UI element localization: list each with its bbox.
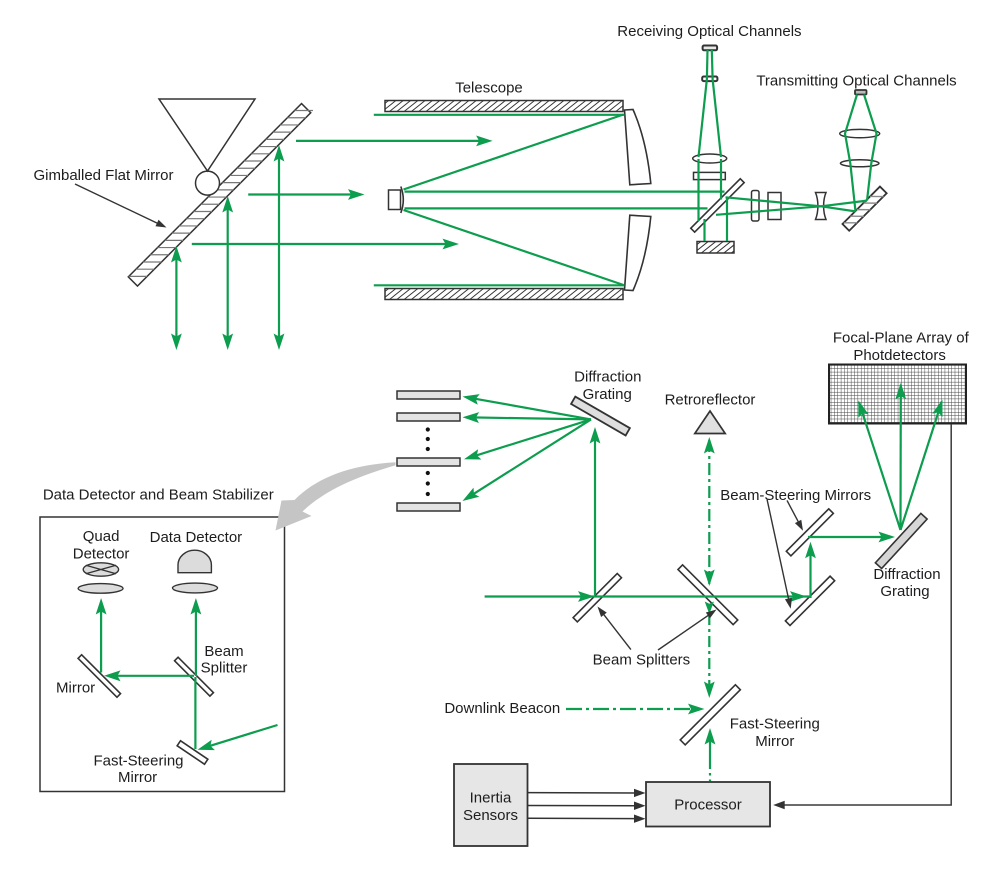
svg-text:Mirror: Mirror [118, 769, 157, 786]
beam: reflected vertical arrow 3 [278, 149, 280, 346]
ellipsis dots between plates 3 and 4 [426, 471, 430, 475]
fast-steering mirror (box, diagonal plate) [177, 741, 208, 764]
calibration hatched block [697, 242, 734, 254]
svg-text:Downlink Beacon: Downlink Beacon [444, 700, 560, 717]
svg-text:Data Detector: Data Detector [150, 529, 243, 546]
svg-text:Data Detector and Beam Stabili: Data Detector and Beam Stabilizer [43, 487, 274, 504]
retroreflector prism (triangle) [695, 411, 725, 434]
lower beam-steering mirror [785, 576, 834, 625]
beam: vertical to quad detector [100, 602, 102, 673]
telescope bottom wall (hatched) [385, 289, 623, 300]
beam: box fast-steering mirror to beam splitter vertical [194, 677, 196, 749]
svg-text:Gimballed Flat Mirror: Gimballed Flat Mirror [33, 167, 173, 184]
beam: transmit left ray [845, 95, 857, 212]
telescope primary mirror lower segment [625, 215, 651, 290]
receiver channel plate 2 [397, 413, 460, 421]
receiving filter plate [694, 172, 726, 179]
svg-text:Beam-Steering Mirrors: Beam-Steering Mirrors [720, 487, 871, 504]
pointer arrow to upper steering mirror [787, 500, 800, 524]
receiver channel plate 1 [397, 391, 460, 399]
receiver channel plate 4 [397, 503, 460, 511]
beam: incoming ray to box fast-steering mirror [209, 725, 278, 746]
beam: grating 2 to focal-plane array (middle) [899, 385, 901, 530]
svg-text:Focal-Plane Array of: Focal-Plane Array of [833, 330, 970, 347]
beam: dispersed ray to channel 3 [472, 419, 591, 457]
svg-text:Retroreflector: Retroreflector [665, 392, 756, 409]
beam: crossing ray lower-left to upper-right [716, 201, 867, 215]
beam: diagonal primary-to-secondary lower [404, 210, 624, 285]
beam: diagonal primary-to-secondary upper [404, 115, 624, 190]
svg-text:Telescope: Telescope [455, 79, 523, 96]
beam: control dash-dot vertical (processor to fast-steering mirror) [709, 731, 711, 762]
beam: beacon dash-dot vertical (retroreflector to splitter 2) [708, 440, 710, 584]
mirror (diagonal plate) [78, 655, 120, 697]
beam: grating 2 to focal-plane array (left) [859, 402, 901, 530]
beam: top ray inside telescope [374, 114, 625, 116]
receiver channel plate 3 [397, 458, 460, 466]
beam splitter (diagonal plate) [175, 657, 214, 696]
beam: incoming horizontal ray 2 [248, 193, 352, 195]
beam: horizontal to diffraction grating 2 [808, 536, 884, 538]
beam: horizontal splitter-to-mirror [114, 675, 194, 677]
beam: receiving vertical left (splitter to lens) [697, 159, 699, 221]
transmit source plate [855, 90, 867, 95]
inertia sensors box [454, 764, 528, 846]
gimballed flat mirror (hatched 45-degree bar) [128, 101, 313, 286]
svg-text:Inertia: Inertia [470, 789, 512, 806]
beam: crossing ray upper-left to lower-right [726, 197, 856, 211]
svg-text:Processor: Processor [674, 796, 742, 813]
svg-text:Sensors: Sensors [463, 807, 518, 824]
beam: vertical to calibration block right [726, 197, 728, 241]
svg-text:Diffraction: Diffraction [574, 369, 641, 386]
svg-text:Beam Splitters: Beam Splitters [593, 651, 691, 668]
svg-text:Transmitting Optical Channels: Transmitting Optical Channels [756, 72, 956, 89]
beam: vertical to calibration block left [703, 219, 705, 241]
telescope secondary mirror block [389, 190, 401, 210]
feedback line from array to processor [776, 424, 951, 805]
beam: vertical to data detector [195, 602, 197, 676]
beam: dispersed ray to channel 1 [470, 398, 591, 420]
transmit lens 1 (ellipse) [840, 129, 880, 137]
gimbal pivot circle [196, 171, 220, 195]
svg-text:Photdetectors: Photdetectors [853, 347, 946, 364]
svg-text:Splitter: Splitter [201, 659, 248, 676]
beam: dispersed ray to channel 2 [471, 417, 592, 419]
svg-text:Grating: Grating [583, 386, 632, 403]
processor box [646, 782, 770, 827]
svg-text:Mirror: Mirror [56, 679, 95, 696]
data detector dome [178, 550, 211, 572]
diffraction grating 1 (gray bar) [571, 397, 630, 436]
svg-text:Fast-Steering: Fast-Steering [730, 715, 820, 732]
beam: vertical to diffraction grating 1 [594, 432, 596, 595]
svg-text:Quad: Quad [83, 528, 120, 545]
pointer arrow to beam splitter 2 [658, 614, 711, 650]
data detector lens (ellipse) [173, 583, 218, 593]
biconcave lens [816, 193, 827, 220]
telescope primary mirror upper segment [625, 110, 651, 185]
beam: reflected vertical arrow 1 [175, 250, 177, 346]
svg-text:Detector: Detector [73, 546, 130, 563]
beam splitter 2 (diagonal plate) [678, 565, 738, 625]
relay plate B [768, 193, 781, 220]
svg-text:Grating: Grating [880, 583, 929, 600]
svg-text:Fast-Steering: Fast-Steering [93, 752, 183, 769]
pointer arrow to gimballed mirror [75, 184, 160, 225]
svg-text:Receiving Optical Channels: Receiving Optical Channels [617, 23, 801, 40]
gimbal yoke triangle [159, 99, 255, 171]
beam: receiving vertical right (splitter to lens) [720, 159, 722, 200]
transmit lens 2 (ellipse) [840, 160, 879, 167]
beam: downlink beacon dash-dot horizontal [566, 708, 690, 710]
svg-text:Mirror: Mirror [755, 733, 794, 750]
beam: incoming horizontal ray 3 [192, 243, 447, 245]
svg-text:Diffraction: Diffraction [873, 566, 940, 583]
diffraction grating 2 (gray bar) [875, 513, 927, 568]
beam: receiving right ray (lens to detector) [712, 50, 721, 157]
data detector and beam stabilizer box [40, 517, 285, 792]
focal-plane array of photodetectors (grid) [829, 365, 966, 424]
quad detector lens (ellipse) [78, 584, 123, 594]
svg-text:Beam: Beam [204, 643, 243, 660]
beam: transmit right ray [864, 95, 877, 201]
telescope secondary mirror curved face [401, 187, 404, 214]
beam: bottom ray inside telescope [374, 284, 625, 286]
signal line 2 (inertia sensors to processor) [528, 805, 637, 807]
signal line 3 (inertia sensors to processor) [528, 817, 637, 819]
beam: grating 2 to focal-plane array (right) [901, 402, 942, 531]
signal line 1 (inertia sensors to processor) [528, 792, 637, 794]
telescope top wall (hatched) [385, 101, 623, 112]
relay plate A [752, 191, 760, 222]
receiving field stop plate [702, 77, 717, 82]
beam: incoming horizontal ray 1 [296, 140, 480, 142]
fast-steering mirror (diagonal plate) [680, 685, 740, 745]
beam: dispersed ray to channel 4 [469, 419, 591, 496]
beam: central upper ray to beam splitter [405, 191, 725, 193]
ellipsis dots between plates 2 and 3 [426, 427, 430, 431]
transmit fold mirror (hatched) [842, 187, 886, 231]
pointer arrow to beam splitter 1 [604, 614, 631, 649]
beam: vertical between steering mirrors [809, 546, 811, 598]
receiving detector plate [703, 46, 718, 51]
beam: central lower ray to beam splitter [405, 207, 708, 209]
beam: receiving left ray (lens to detector) [699, 50, 708, 157]
gray curved arrow (detail callout) [276, 462, 396, 530]
beam: reflected vertical arrow 2 [227, 200, 229, 346]
receiving collimating lens (ellipse) [693, 154, 727, 163]
transmit/receive beam splitter (diagonal plate) [691, 179, 744, 232]
quad detector (ellipse with cross) [83, 563, 118, 576]
beam splitter 1 (diagonal plate) [573, 574, 621, 622]
beam: main horizontal beam [485, 595, 811, 597]
pointer arrow to lower steering mirror [767, 500, 789, 599]
upper beam-steering mirror [786, 509, 833, 556]
beam: beacon dash-dot vertical (splitter 2 to fast-steering mirror) [705, 602, 714, 615]
